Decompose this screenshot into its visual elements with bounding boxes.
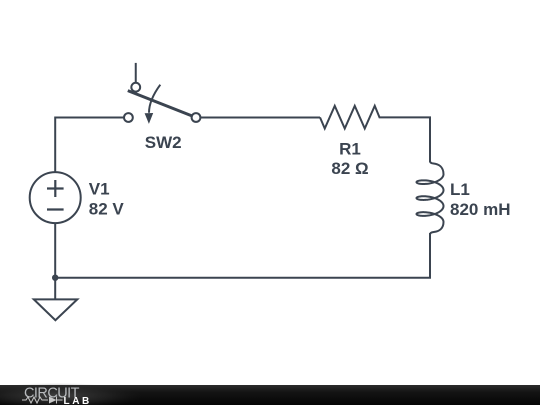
svg-text:SW2: SW2 [145,133,182,152]
svg-text:820 mH: 820 mH [450,200,510,219]
svg-text:V1: V1 [89,179,110,198]
svg-text:82 V: 82 V [89,199,125,218]
svg-text:LAB: LAB [64,396,92,405]
svg-text:R1: R1 [339,140,361,159]
svg-text:L1: L1 [450,180,470,199]
svg-text:82 Ω: 82 Ω [331,159,368,178]
